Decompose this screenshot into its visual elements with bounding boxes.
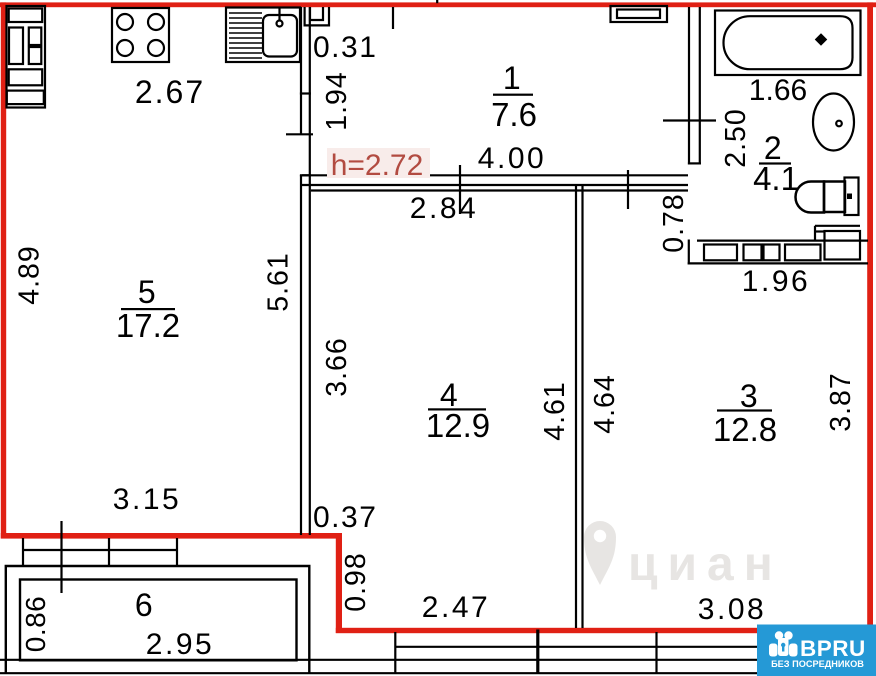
bathroom left wall inner line xyxy=(699,7,701,165)
red boundary bottom-left xyxy=(1,533,342,539)
room 4 underline xyxy=(428,408,486,410)
svg-text:2.84: 2.84 xyxy=(410,192,478,225)
wall A cap at y175 xyxy=(300,174,311,176)
svg-text:2.50: 2.50 xyxy=(720,108,752,167)
stove xyxy=(112,8,169,62)
svg-text:3.15: 3.15 xyxy=(113,483,181,516)
svg-text:0.37: 0.37 xyxy=(313,501,377,534)
kitchen sink counter xyxy=(226,8,300,63)
niche box outer top-left of room1 xyxy=(305,7,329,25)
svg-text:12.9: 12.9 xyxy=(426,407,490,444)
red boundary bottom xyxy=(336,628,876,633)
wall B bottom line xyxy=(311,189,688,191)
svg-text:0.31: 0.31 xyxy=(313,31,377,64)
svg-text:5: 5 xyxy=(138,274,158,310)
svg-text:3.87: 3.87 xyxy=(825,372,857,431)
height label h=2.72 xyxy=(327,148,430,178)
svg-text:БЕЗ ПОСРЕДНИКОВ: БЕЗ ПОСРЕДНИКОВ xyxy=(771,659,864,669)
svg-text:4.64: 4.64 xyxy=(589,374,621,433)
dimension tick 2.50 on bathroom wall xyxy=(663,119,716,121)
vent box outer xyxy=(611,6,668,22)
svg-text:6: 6 xyxy=(135,587,155,623)
svg-text:3.08: 3.08 xyxy=(698,593,766,626)
building lines below xyxy=(0,630,876,675)
bathroom bottom wall outer line xyxy=(688,262,868,264)
bathroom left wall cap xyxy=(688,162,701,164)
balcony window band xyxy=(23,521,177,593)
room1 dimension line y175 xyxy=(302,174,688,176)
wall A cap at y93 xyxy=(300,92,311,94)
svg-text:0.86: 0.86 xyxy=(20,596,51,653)
sink tap xyxy=(278,8,280,20)
room 3 underline xyxy=(717,409,772,411)
sink hatch xyxy=(229,13,262,58)
wall A right line xyxy=(309,7,311,535)
red boundary left xyxy=(1,2,6,538)
washing machine box xyxy=(825,231,861,260)
svg-text:3: 3 xyxy=(740,378,760,414)
cabinet box 6 xyxy=(7,91,44,105)
room 1 underline xyxy=(493,94,533,96)
wall B top line xyxy=(302,184,688,186)
room 5 underline xyxy=(121,308,175,310)
sink basin xyxy=(263,15,297,57)
cabinet box 4 xyxy=(29,47,42,64)
building line y647 xyxy=(396,646,876,648)
wall A left line lower xyxy=(300,175,302,535)
svg-text:3.66: 3.66 xyxy=(321,337,353,396)
BPRU logo xyxy=(757,625,876,676)
svg-text:0.98: 0.98 xyxy=(340,552,372,611)
svg-text:2.95: 2.95 xyxy=(146,628,214,661)
svg-text:17.2: 17.2 xyxy=(116,307,180,344)
svg-text:4.89: 4.89 xyxy=(14,245,46,304)
svg-text:2.47: 2.47 xyxy=(422,591,490,624)
cabinet box 1 xyxy=(9,9,43,23)
toilet xyxy=(795,178,858,216)
svg-text:5.61: 5.61 xyxy=(263,252,295,311)
cabinet box 3 xyxy=(29,28,42,46)
kitchen cabinets xyxy=(7,6,46,108)
wall A wide tick at y134 xyxy=(286,133,313,135)
red boundary right xyxy=(867,2,873,633)
wall C left line xyxy=(575,186,577,628)
svg-text:1: 1 xyxy=(503,60,523,96)
bathtub xyxy=(715,11,861,76)
building vertical x395 xyxy=(394,632,396,674)
dimension tick x393 xyxy=(392,7,394,29)
wall C right line xyxy=(581,186,583,628)
building vertical x656 xyxy=(655,632,657,674)
bathroom left wall outer line xyxy=(688,7,690,165)
bathroom cabinet row xyxy=(704,245,821,261)
bathtub faucet diamond xyxy=(816,35,825,44)
svg-text:h=2.72: h=2.72 xyxy=(331,149,424,182)
cabinet box 2 xyxy=(9,28,23,65)
dimension tick x628 xyxy=(627,170,629,209)
svg-text:4.1: 4.1 xyxy=(753,160,799,197)
red boundary top xyxy=(0,2,876,7)
svg-text:1.96: 1.96 xyxy=(742,265,810,298)
room 2 underline xyxy=(759,162,791,164)
logo icon xyxy=(769,631,798,656)
bathroom bottom wall left cap xyxy=(688,240,690,265)
svg-text:1.66: 1.66 xyxy=(749,74,807,107)
niche box inner xyxy=(310,7,323,20)
svg-text:4.61: 4.61 xyxy=(539,381,571,440)
svg-text:4.00: 4.00 xyxy=(478,142,546,175)
red boundary step vertical xyxy=(336,533,342,633)
svg-text:12.8: 12.8 xyxy=(713,411,777,448)
tiny tick top edge xyxy=(436,0,438,3)
bathroom step lines xyxy=(815,226,860,260)
cabinet box 5 xyxy=(9,69,43,85)
wall A left line upper xyxy=(300,7,302,134)
watermark cian pin xyxy=(584,521,616,585)
balcony long tick xyxy=(60,521,62,593)
balcony inner rect xyxy=(20,580,297,661)
dimension tick x460 xyxy=(459,165,461,214)
svg-text:0.78: 0.78 xyxy=(658,193,690,252)
svg-text:2.67: 2.67 xyxy=(135,74,205,110)
building vertical x538 xyxy=(536,630,539,675)
svg-text:7.6: 7.6 xyxy=(491,96,537,133)
balcony outer rect xyxy=(6,566,310,673)
bathroom sink xyxy=(813,94,854,151)
vent box inner xyxy=(617,10,660,19)
svg-text:1.94: 1.94 xyxy=(321,71,353,130)
cabinet outer xyxy=(7,6,46,108)
svg-text:циан: циан xyxy=(628,538,783,591)
bathroom bottom wall inner line xyxy=(697,240,868,242)
building bottom line y673 xyxy=(0,672,876,674)
building line y660 xyxy=(0,659,876,661)
svg-text:BPRU: BPRU xyxy=(800,636,866,661)
